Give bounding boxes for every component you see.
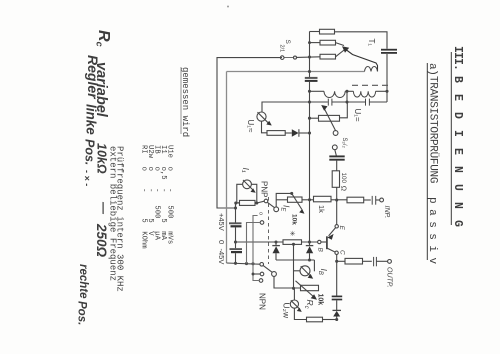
svg-text:B E D I E N U N G: B E D I E N U N G <box>451 76 464 227</box>
capacitor C4 <box>365 99 367 106</box>
resistor R5 <box>267 131 285 136</box>
wire vertical B (gang link) <box>253 216 259 281</box>
wire R6 to PNP switch <box>257 201 264 203</box>
terminal OUTP <box>388 260 392 264</box>
node +45V junction <box>234 206 237 209</box>
wire M1 to R5 <box>262 121 268 133</box>
resistor R3 of bank <box>320 54 336 59</box>
transistor DUT symbol <box>329 228 336 236</box>
svg-text:—: — <box>97 201 111 215</box>
potentiometer P3 (Rc) <box>301 285 319 290</box>
wire center vertical (base net down) <box>293 244 295 288</box>
svg-text:o: o <box>258 212 264 215</box>
svg-text:E: E <box>338 226 345 231</box>
svg-text:-45V: -45V <box>217 249 226 265</box>
meter M3 (IB) <box>313 260 315 271</box>
svg-text:U₂w: U₂w <box>282 303 292 319</box>
resistor R2 of bank <box>320 40 336 45</box>
node y102 junctions <box>308 100 311 103</box>
svg-text:rechte: rechte <box>77 264 89 299</box>
svg-text:- × -: - × - <box>82 170 92 186</box>
wire main vertical bus x=309.5 upper <box>309 32 311 78</box>
wire S2/1 to resistor bank <box>297 56 320 59</box>
svg-text:OUTP.: OUTP. <box>385 267 392 288</box>
svg-text:250Ω: 250Ω <box>94 223 109 258</box>
collector line and terminal C <box>327 248 335 252</box>
wire S1 pivot to IE pot wiper <box>276 193 292 207</box>
wire top rail to right <box>335 32 388 49</box>
meter M1 (U1~) <box>262 102 310 112</box>
capacitor C10 <box>332 295 343 297</box>
switch S2/2 <box>333 131 338 136</box>
diode D2 <box>275 242 277 245</box>
terminal B <box>318 240 321 243</box>
wire R4 to input row <box>336 187 338 200</box>
svg-text:+45V: +45V <box>217 213 226 231</box>
potentiometer P2 (IE) <box>288 197 303 202</box>
wire D2/D3 bottom link <box>276 259 314 261</box>
wire center tap link <box>346 91 348 102</box>
capacitor C8 (0 to -45) <box>234 240 237 243</box>
svg-text:S₂/₂: S₂/₂ <box>341 138 347 149</box>
svg-text:Pos.: Pos. <box>76 301 88 325</box>
wire right rail lower <box>386 54 388 102</box>
svg-text:I₁: I₁ <box>241 168 251 173</box>
svg-text:RI o - 5 KOhm: RI o - 5 KOhm <box>140 145 148 249</box>
transformer T1 secondary winding row <box>310 90 388 98</box>
node base row <box>274 240 277 243</box>
resistor R11 (bottom) <box>307 317 323 322</box>
wire S2/2 to C5 <box>335 150 337 156</box>
wire C5 to R4 <box>336 161 338 171</box>
svg-text:Ω: Ω <box>340 186 347 191</box>
capacitor C2 on bus <box>305 77 318 79</box>
wire collector net down <box>336 261 338 295</box>
M2 meter branch <box>237 184 243 203</box>
resistor R4 100 ohm <box>332 171 339 188</box>
handwritten annotation line A <box>76 30 113 325</box>
meter M4 (U2w) <box>293 288 295 300</box>
wire C to OUTP row <box>336 255 338 262</box>
meter M2 (I1) loop <box>235 203 237 208</box>
wire stub to meter row <box>236 203 241 208</box>
svg-text:100: 100 <box>340 173 347 184</box>
capacitor C5 <box>329 155 344 157</box>
capacitor C3 <box>327 99 329 106</box>
wire left inner rail (0 volt) <box>226 72 228 264</box>
wire M4 to bottom row <box>294 308 306 319</box>
potentiometer P1 (U1=) <box>319 115 340 121</box>
heading underlines <box>450 52 452 225</box>
resistor R6 <box>240 200 256 205</box>
svg-text:C: C <box>339 250 346 255</box>
diode D4 <box>333 309 342 311</box>
selector switch arm with arrow <box>342 46 378 71</box>
wire lower transformer row <box>310 101 328 103</box>
svg-text:U₁=: U₁= <box>353 109 362 122</box>
speck <box>227 6 229 8</box>
capacitor C9 <box>373 257 375 266</box>
wire long rail to transformer primary <box>227 71 365 73</box>
resistor R1 of bank <box>320 29 335 34</box>
HEADINGS <box>426 46 464 270</box>
switch S1 NPN contacts <box>260 263 264 267</box>
wire vertical A (PNP lower contact to -45V) <box>247 223 261 264</box>
node bus y91 <box>308 90 311 93</box>
svg-text:10k: 10k <box>291 214 298 225</box>
resistor R7 1k <box>314 196 332 202</box>
svg-text:Rc: Rc <box>303 300 315 309</box>
transformer T1 primary coil <box>365 67 378 72</box>
label +45V 0 -45V <box>217 213 226 264</box>
wire NPN pivot to measuring net <box>274 276 302 288</box>
svg-text:III.: III. <box>451 46 464 70</box>
node right rail / winding <box>385 90 388 93</box>
svg-text:1k: 1k <box>317 205 326 213</box>
P1 wiper arrow <box>325 109 336 131</box>
svg-text:U₁≈: U₁≈ <box>246 120 255 133</box>
terminal INP <box>380 198 384 202</box>
diode D1 <box>292 129 299 137</box>
wire -45V bottom rail <box>227 263 260 264</box>
svg-text:Regler: Regler <box>85 55 101 100</box>
transistor DUT terminal E <box>336 200 338 225</box>
transformer T1 core (dashed) <box>352 84 391 86</box>
svg-text:INP.: INP. <box>383 206 390 219</box>
svg-text:0: 0 <box>217 240 226 244</box>
node bus y71 <box>308 70 311 73</box>
switch S2/1 <box>279 40 297 60</box>
svg-text:T₁: T₁ <box>367 39 376 47</box>
svg-text:PNP: PNP <box>260 181 269 197</box>
capacitor C7 (+45 to 0) <box>235 208 237 223</box>
svg-text:10k: 10k <box>317 294 324 306</box>
wire +45V feed from switch S2/1 to left rail <box>217 58 282 208</box>
svg-text:2/1: 2/1 <box>279 45 285 53</box>
switch S1 PNP contacts <box>264 199 268 203</box>
svg-text:B: B <box>317 248 324 253</box>
wire base row (0V to B terminal) <box>236 241 318 243</box>
svg-text:gemessen wird: gemessen wird <box>180 67 190 137</box>
capacitor C6 <box>371 196 373 205</box>
wire bus below C2 <box>309 82 311 245</box>
svg-text:linke: linke <box>84 104 99 135</box>
svg-text:NPN: NPN <box>258 293 267 310</box>
capacitor C1 in right rail <box>381 49 397 51</box>
dashed gang line of S1 <box>268 197 270 264</box>
resistor R9 (base series) <box>283 240 302 245</box>
svg-text:Pos.: Pos. <box>83 139 97 165</box>
svg-text:IB: IB <box>317 269 329 275</box>
diode D3 <box>306 245 314 247</box>
resistor R10 (output series) <box>337 260 345 262</box>
svg-text:✳: ✳ <box>288 231 296 237</box>
node x309/y57 <box>308 55 311 58</box>
svg-text:IE: IE <box>280 205 292 212</box>
svg-text:TRANSISTORPRÜFUNG: TRANSISTORPRÜFUNG <box>427 76 440 183</box>
LEGEND <box>108 67 191 292</box>
svg-text:Rc: Rc <box>95 30 113 47</box>
resistor R8 <box>347 197 364 203</box>
